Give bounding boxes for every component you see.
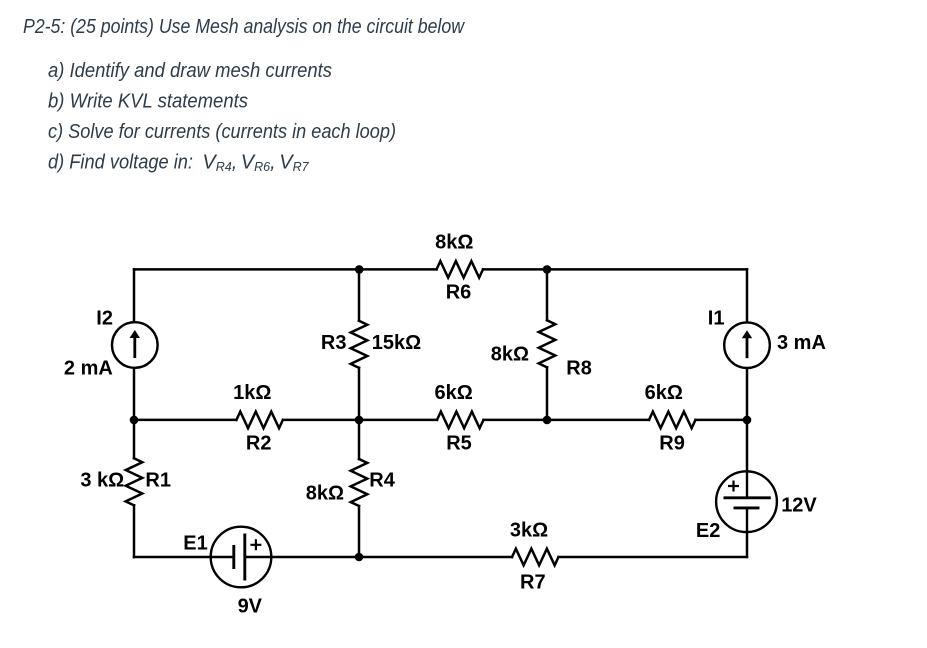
battery E2: [716, 470, 777, 533]
resistor R3: [351, 321, 368, 368]
svg-text:R1: R1: [145, 470, 171, 492]
svg-text:a) Identify and draw mesh curr: a) Identify and draw mesh currents: [48, 60, 332, 82]
E1 lead wires: [211, 556, 271, 558]
node R8 top: [543, 265, 552, 274]
svg-text:b) Write KVL statements: b) Write KVL statements: [48, 91, 248, 113]
svg-text:R9: R9: [659, 432, 685, 454]
svg-text:R2: R2: [246, 432, 272, 454]
svg-text:R3: R3: [321, 332, 347, 354]
E1 plus sign: [250, 539, 261, 550]
wire bottom: [134, 556, 747, 559]
wire R8 branch: [546, 269, 549, 420]
svg-text:R8: R8: [566, 358, 592, 380]
I2 arrow shaft: [133, 336, 136, 358]
svg-text:15kΩ: 15kΩ: [372, 332, 421, 354]
svg-text:E2: E2: [696, 520, 720, 542]
node R3/R4 junction: [355, 416, 364, 425]
node R4 bottom: [355, 553, 364, 562]
I1 arrow shaft: [746, 336, 749, 358]
resistor R7: [512, 549, 559, 566]
I1 arrow head: [742, 330, 752, 338]
svg-text:R6: R6: [446, 281, 472, 303]
svg-text:3kΩ: 3kΩ: [510, 520, 548, 542]
svg-text:E1: E1: [183, 532, 207, 554]
svg-text:8kΩ: 8kΩ: [306, 483, 344, 505]
svg-text:6kΩ: 6kΩ: [434, 382, 472, 404]
svg-text:I2: I2: [96, 307, 113, 329]
current source I2: [112, 322, 158, 368]
current source I1: [724, 322, 770, 368]
svg-text:12V: 12V: [781, 495, 817, 517]
node right middle: [743, 416, 752, 425]
I2 circle: [112, 322, 158, 368]
resistor R8: [539, 320, 556, 367]
wire mid-vertical R3/R4 branch: [358, 269, 361, 557]
resistor R1: [126, 458, 143, 505]
wire top: [134, 268, 747, 271]
svg-text:R7: R7: [520, 571, 546, 593]
svg-text:R4: R4: [369, 470, 395, 492]
svg-text:P2-5: (25 points) Use Mesh ana: P2-5: (25 points) Use Mesh analysis on t…: [23, 16, 465, 38]
svg-text:R5: R5: [446, 432, 472, 454]
wire right: [746, 269, 749, 557]
E1 positive plate: [243, 534, 246, 581]
resistor R5: [437, 412, 484, 429]
E2 circle: [716, 471, 777, 532]
resistor R2: [236, 412, 283, 429]
E2 plus sign: [728, 481, 739, 492]
svg-text:6kΩ: 6kΩ: [645, 382, 683, 404]
resistor R6: [437, 261, 484, 278]
node R8 bottom: [543, 416, 552, 425]
svg-text:8kΩ: 8kΩ: [435, 231, 473, 253]
resistor R4: [351, 459, 368, 506]
I1 circle: [724, 322, 770, 368]
E2 lead wires: [746, 470, 748, 533]
svg-text:I1: I1: [708, 308, 725, 330]
wire middle: [134, 419, 747, 422]
wire left: [133, 269, 136, 557]
svg-text:c) Solve for currents (current: c) Solve for currents (currents in each …: [48, 121, 396, 143]
E1 negative plate: [232, 545, 235, 569]
svg-text:3 kΩ: 3 kΩ: [80, 469, 124, 491]
node R3 top: [355, 265, 364, 274]
svg-text:2 mA: 2 mA: [64, 358, 113, 380]
svg-text:1kΩ: 1kΩ: [233, 382, 271, 404]
svg-text:8kΩ: 8kΩ: [491, 344, 529, 366]
svg-text:3 mA: 3 mA: [777, 332, 826, 354]
svg-text:d) Find voltage in:: d) Find voltage in:: [48, 151, 193, 173]
node left middle: [130, 416, 139, 425]
resistor R9: [649, 412, 696, 429]
battery E1: [211, 527, 272, 588]
svg-text:9V: 9V: [238, 596, 263, 618]
I2 arrow head: [130, 330, 140, 338]
E1 circle: [211, 527, 272, 588]
E2 negative plate: [734, 506, 760, 509]
E2 positive plate: [724, 496, 771, 499]
